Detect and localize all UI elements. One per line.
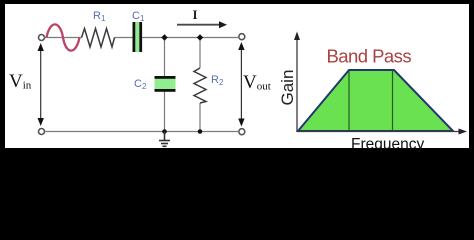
wire: R1 to C1: [115, 37, 133, 39]
wire: C2 branch lower: [164, 92, 166, 132]
junction node at ground: [162, 129, 167, 134]
upper cutoff frequency line: [392, 71, 394, 131]
band-pass response curve (green trapezoid): [298, 70, 453, 131]
wire: bottom rail: [45, 131, 239, 133]
V_in measurement arrow: [38, 43, 44, 126]
resistor R2: [194, 68, 206, 103]
svg-text:I: I: [193, 7, 198, 22]
junction node at C2 branch top: [161, 34, 168, 41]
wire: C2 branch upper: [164, 38, 166, 77]
V_out measurement arrow: [238, 42, 244, 127]
ground: [159, 132, 170, 147]
AC source sine wave: [47, 24, 80, 50]
wire: C1 to V_out top terminal: [142, 37, 239, 39]
wire: top rail from source to R1: [45, 37, 82, 39]
capacitor C2: [155, 76, 176, 92]
graph y-axis (Gain): [294, 32, 300, 132]
lower cutoff frequency line: [348, 71, 350, 131]
svg-text:Gain: Gain: [278, 70, 297, 106]
current arrow I: [177, 21, 227, 28]
junction node at R2 branch bottom: [198, 129, 203, 134]
graph x-axis (Frequency): [297, 129, 467, 135]
node: V_out top terminal: [239, 34, 245, 40]
resistor R1: [82, 29, 115, 48]
junction node at R2 branch top: [197, 34, 204, 41]
capacitor C1: [133, 22, 143, 52]
wire: R2 branch lower: [199, 103, 201, 132]
wire: R2 branch upper: [199, 38, 201, 69]
node: V_in top terminal: [39, 35, 45, 41]
svg-text:Frequency: Frequency: [351, 136, 424, 153]
node: V_in bottom terminal: [39, 129, 45, 135]
svg-text:Band Pass: Band Pass: [327, 46, 412, 67]
node: V_out bottom terminal: [239, 129, 245, 135]
